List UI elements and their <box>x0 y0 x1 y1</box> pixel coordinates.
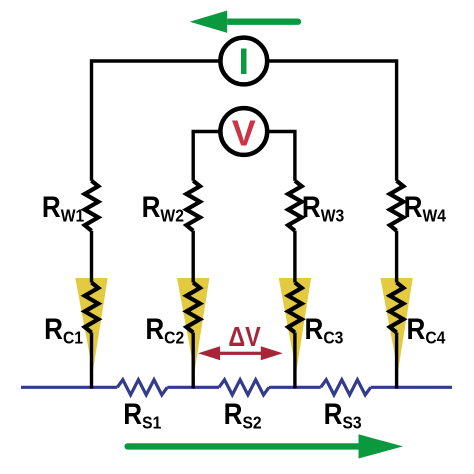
resistor RW3 <box>288 181 302 231</box>
label RS1 <box>123 397 161 432</box>
wire ammeter right <box>268 61 397 181</box>
label RC2 <box>145 312 184 347</box>
resistor RW4 <box>390 181 404 231</box>
label RW4 <box>404 190 447 225</box>
voltmeter U2 <box>220 108 267 155</box>
label RW1 <box>42 190 84 225</box>
delta-V arrow (red, double-headed) <box>198 346 283 360</box>
probe tip 3 (yellow) <box>279 278 311 372</box>
resistor RS2 (sample) <box>219 380 269 395</box>
resistor RW1 <box>85 181 99 231</box>
resistor RS1 (sample) <box>117 380 167 395</box>
wire col3 mid <box>293 231 296 283</box>
probe tip 2 (yellow) <box>177 278 209 372</box>
label deltaV <box>228 322 260 352</box>
ammeter I symbol <box>241 49 247 75</box>
resistor RC4 (contact) <box>390 283 404 333</box>
label RC4 <box>407 312 446 347</box>
wire voltmeter left <box>193 132 219 181</box>
resistor RC3 (contact) <box>288 283 302 333</box>
current direction arrow (top, green) <box>190 11 302 33</box>
resistor RW2 <box>186 181 200 231</box>
wire col2 mid <box>191 231 194 283</box>
svg-text:ΔV: ΔV <box>228 322 260 352</box>
label RC1 <box>44 312 83 347</box>
ammeter U1 <box>220 38 267 85</box>
wire col4 to sample <box>395 333 398 389</box>
resistor RS3 (sample) <box>321 380 371 395</box>
label RS3 <box>324 397 362 432</box>
label RW3 <box>302 190 344 225</box>
current direction arrow (bottom, green) <box>124 434 403 458</box>
probe tip 1 (yellow) <box>75 278 107 372</box>
resistor RC2 (contact) <box>186 283 200 333</box>
wire col4 mid <box>395 231 398 283</box>
label RS2 <box>224 397 262 432</box>
wire ammeter left <box>92 61 220 181</box>
label RW2 <box>142 190 184 225</box>
resistor RC1 (contact) <box>85 283 99 333</box>
wire col2 to sample <box>191 333 194 389</box>
wire col1 to sample <box>90 333 93 389</box>
wire col1 mid <box>90 231 93 283</box>
wire voltmeter right <box>268 132 295 181</box>
probe tip 4 (yellow) <box>380 278 412 372</box>
wire col3 to sample <box>293 333 296 389</box>
label RC3 <box>305 312 344 347</box>
svg-text:V: V <box>232 113 256 154</box>
sample bar (blue line) <box>21 386 452 389</box>
